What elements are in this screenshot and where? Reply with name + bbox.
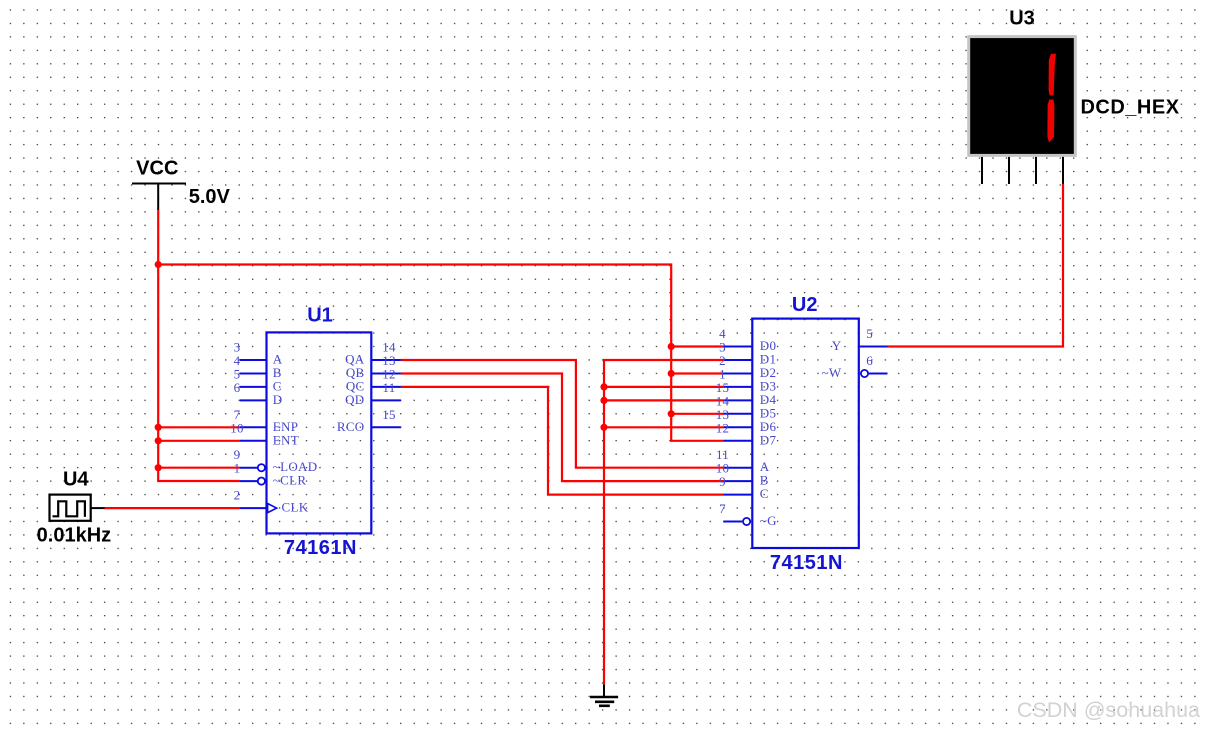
U3 pin 2 [1008, 157, 1010, 184]
U4 output pin [91, 507, 105, 509]
wire junction [600, 424, 607, 431]
U2 pin 12 D7 (left) [716, 420, 777, 447]
svg-text:VCC: VCC [136, 157, 178, 179]
wire: ground bus tap to U2 D6 [604, 426, 723, 428]
svg-text:U4: U4 [63, 469, 89, 491]
svg-text:5: 5 [866, 326, 873, 341]
U2 pin 3 D1 (left) [719, 340, 776, 367]
U1 pin 9 ~LOAD (left) [234, 447, 318, 474]
wire: ground bus tap to U2 D3 [604, 386, 723, 388]
wire: VCC to U1 ~LOAD [158, 467, 240, 469]
svg-text:5.0V: 5.0V [189, 186, 231, 208]
U1 pin 4 B (left) [234, 353, 282, 380]
svg-text:ENT: ENT [273, 432, 299, 447]
wire junction [600, 397, 607, 404]
wire: VCC to U1 ENP [158, 426, 240, 428]
wire junction [668, 343, 675, 350]
svg-text:74161N: 74161N [284, 537, 357, 559]
svg-text:D7: D7 [760, 432, 777, 447]
U1 pin 13 QB (right) [346, 353, 401, 380]
U2 pin 13 D6 (left) [716, 407, 777, 434]
U2 pin 4 D0 (left) [719, 326, 776, 353]
svg-text:U1: U1 [307, 304, 333, 326]
svg-text:DCD_HEX: DCD_HEX [1080, 97, 1179, 119]
wire: U1 QC to U2 C [401, 387, 724, 495]
svg-text:Y: Y [832, 338, 842, 353]
svg-text:6: 6 [866, 353, 873, 368]
svg-text:~G: ~G [760, 513, 777, 528]
wire: U2 Y output up to U3 display pin [888, 184, 1064, 347]
svg-text:12: 12 [716, 420, 730, 435]
svg-text:7: 7 [719, 501, 726, 516]
U1 pin 15 RCO (right) [337, 407, 401, 434]
svg-text:~CLR: ~CLR [273, 473, 307, 488]
svg-text:~W: ~W [822, 365, 842, 380]
U1 pin 11 QD (right) [345, 380, 401, 407]
svg-text:RCO: RCO [337, 419, 365, 434]
svg-text:CLK: CLK [282, 500, 309, 515]
IC U1 74161N body [267, 332, 372, 533]
wire: clock U4 to U1 CLK [104, 507, 240, 509]
display U3 DCD_HEX seven-segment [967, 35, 1077, 157]
wire junction [668, 370, 675, 377]
svg-text:0.01kHz: 0.01kHz [37, 524, 112, 546]
U2 pin 5 Y (right) [832, 326, 888, 353]
svg-text:1: 1 [234, 461, 241, 476]
wire: bus tap to U2 D0 [671, 345, 723, 347]
U2 pin 10 B (left) [716, 461, 769, 488]
power symbol VCC [132, 183, 186, 185]
U1 pin 14 QA (right) [345, 340, 401, 367]
wire: VCC vertical bus from power symbol down to ~CLR [158, 210, 240, 481]
U2 pin 1 D3 (left) [719, 367, 776, 394]
U3 pin 4 [1062, 157, 1064, 184]
U1 pin 6 D (left) [234, 380, 283, 407]
U2 pin 2 D2 (left) [719, 353, 776, 380]
wire junction [155, 424, 162, 431]
U2 pin 6 ~W (right) [822, 353, 888, 380]
svg-text:15: 15 [382, 407, 396, 422]
wire: U1 QA to U2 A [401, 360, 724, 468]
U1 pin 1 ~CLR (left) [234, 461, 307, 488]
U1 pin 10 ENT (left) [230, 420, 299, 447]
svg-text:U3: U3 [1009, 7, 1035, 29]
wire junction [668, 410, 675, 417]
svg-text:QD: QD [345, 392, 364, 407]
segment B lit (digit 1 upper) [1049, 54, 1056, 96]
segment C lit (digit 1 lower) [1047, 100, 1054, 143]
U1 pin 3 A (left) [234, 340, 283, 367]
IC U2 74151N body [752, 319, 859, 548]
clock source U4 body [50, 495, 91, 521]
svg-text:U2: U2 [792, 294, 818, 316]
U1 pin 5 C (left) [234, 367, 282, 394]
svg-text:74151N: 74151N [770, 552, 843, 574]
U2 pin 15 D4 (left) [716, 380, 777, 407]
wire junction [155, 464, 162, 471]
U2 pin 14 D5 (left) [716, 393, 777, 420]
U1 pin 7 ENP (left) [234, 407, 299, 434]
svg-text:C: C [760, 486, 769, 501]
svg-text:6: 6 [234, 380, 241, 395]
wire: U1 QB to U2 B [401, 374, 724, 482]
wire: bus tap to U2 D5 [671, 413, 723, 415]
wire junction [600, 383, 607, 390]
U3 pin 3 [1035, 157, 1037, 184]
ground [590, 685, 618, 706]
wire: VCC top horizontal to vertical bus at x=671 feeding D0,D2,D5,D7 [158, 265, 723, 441]
svg-text:2: 2 [234, 488, 241, 503]
U2 pin 9 C (left) [719, 474, 769, 501]
wire: VCC to U1 ENT [158, 440, 240, 442]
wire: ground vertical bus, top corner to U2 D1 [604, 360, 723, 685]
wire junction [155, 261, 162, 268]
U3 pin 1 [981, 157, 983, 184]
U2 pin 7 ~G (left) [719, 501, 777, 528]
svg-text:D: D [273, 392, 283, 407]
wire: bus tap to U2 D2 [671, 372, 723, 374]
U1 pin 12 QC (right) [346, 367, 401, 394]
svg-text:11: 11 [382, 380, 395, 395]
wire junction [155, 437, 162, 444]
svg-text:9: 9 [719, 474, 726, 489]
svg-text:CSDN @sohuahua: CSDN @sohuahua [1017, 698, 1200, 722]
svg-text:10: 10 [230, 420, 244, 435]
U1 pin 2 CLK (left) [234, 488, 309, 515]
wire: ground bus tap to U2 D4 [604, 399, 723, 401]
U2 pin 11 A (left) [716, 447, 770, 474]
